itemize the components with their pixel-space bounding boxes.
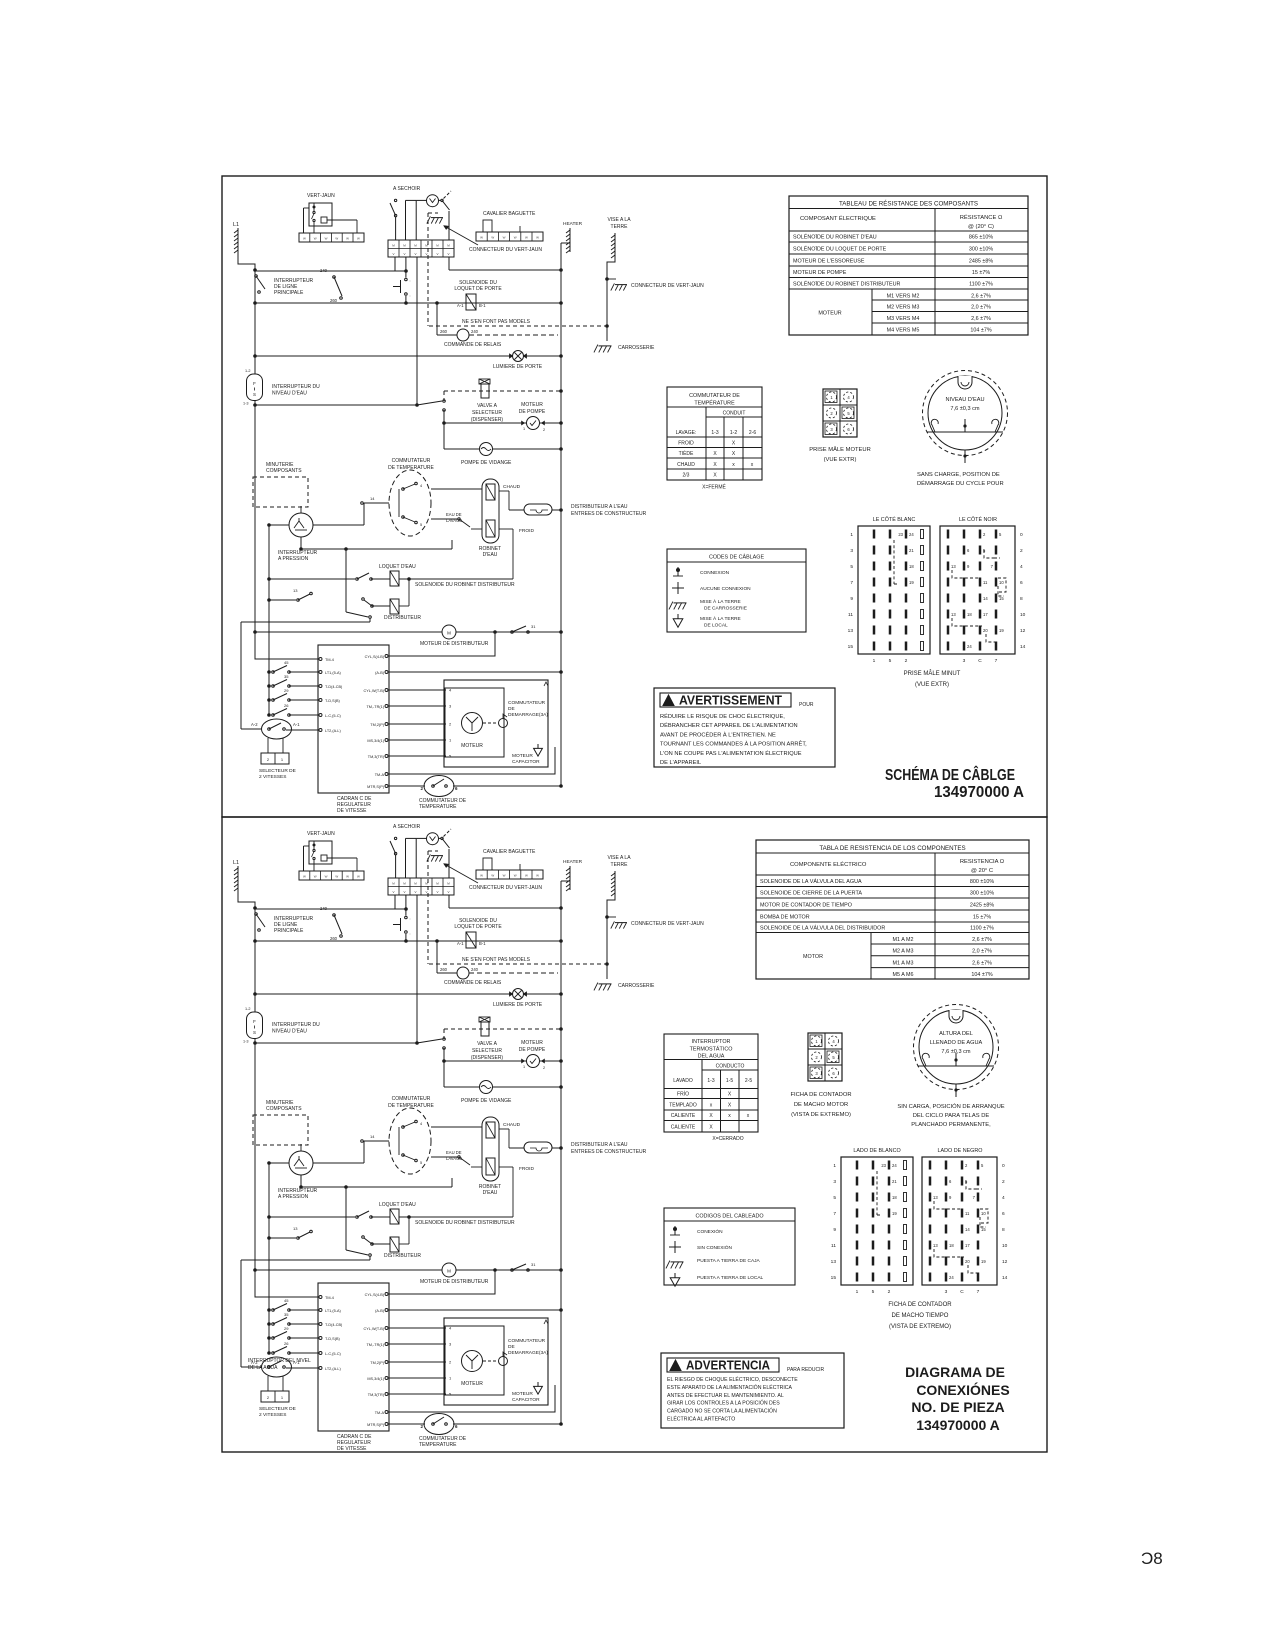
svg-text:134970000 A: 134970000 A [934, 784, 1024, 801]
svg-text:20: 20 [965, 1259, 970, 1264]
svg-text:4: 4 [1002, 1195, 1005, 1201]
svg-text:M5 A M6: M5 A M6 [893, 972, 914, 978]
svg-text:FICHA DE CONTADOR: FICHA DE CONTADOR [888, 1302, 952, 1308]
svg-text:2-5: 2-5 [745, 1078, 752, 1084]
svg-text:5: 5 [889, 658, 892, 664]
svg-text:TEMPÉRATURE: TEMPÉRATURE [694, 400, 735, 407]
svg-text:LADO DE BLANCO: LADO DE BLANCO [853, 1148, 900, 1154]
connector grid black side [940, 526, 1015, 654]
svg-text:SOLÉNOÏDE DU ROBINET D'EAU: SOLÉNOÏDE DU ROBINET D'EAU [793, 234, 877, 241]
svg-text:BOMBA DE MOTOR: BOMBA DE MOTOR [760, 915, 810, 921]
svg-text:@ 20° C: @ 20° C [971, 868, 993, 874]
svg-text:10: 10 [999, 580, 1004, 585]
svg-text:4: 4 [1020, 564, 1023, 570]
svg-text:11: 11 [831, 1243, 836, 1249]
svg-text:MOTEUR DE POMPE: MOTEUR DE POMPE [793, 270, 847, 276]
svg-text:2485 ±8%: 2485 ±8% [969, 259, 993, 265]
svg-text:TOURNANT LES COMMANDES À LA PO: TOURNANT LES COMMANDES À LA POSITION ARR… [660, 740, 807, 748]
svg-text:14: 14 [965, 1227, 970, 1232]
svg-text:M1 A M3: M1 A M3 [893, 961, 914, 967]
svg-text:1100 ±7%: 1100 ±7% [970, 926, 994, 932]
svg-text:GIRAR LOS CONTROLES A LA POSIC: GIRAR LOS CONTROLES A LA POSICIÓN DES [667, 1400, 780, 1407]
frame bottom diagram [222, 817, 1047, 1452]
table resistance FR [789, 196, 1028, 335]
svg-text:18: 18 [892, 1195, 897, 1200]
svg-text:RÉDUIRE LE RISQUE DE CHOC ÉLEC: RÉDUIRE LE RISQUE DE CHOC ÉLECTRIQUE, [660, 713, 785, 720]
svg-text:NIVEAU D'EAU: NIVEAU D'EAU [946, 397, 985, 403]
warning box [654, 688, 835, 767]
svg-text:LE CÔTÉ NOIR: LE CÔTÉ NOIR [959, 516, 997, 523]
svg-text:NO. DE PIEZA: NO. DE PIEZA [911, 1399, 1004, 1415]
legend codes ES [664, 1208, 795, 1285]
svg-text:TIÈDE: TIÈDE [679, 450, 694, 457]
svg-text:M1 VERS M2: M1 VERS M2 [887, 294, 920, 300]
svg-text:24: 24 [892, 1163, 897, 1168]
svg-text:21: 21 [892, 1179, 897, 1184]
svg-text:2,0 ±7%: 2,0 ±7% [972, 949, 992, 955]
svg-text:2: 2 [888, 1289, 891, 1295]
svg-text:CONNEXION: CONNEXION [700, 570, 730, 576]
svg-text:PUESTA A TIERRA DE CAJA: PUESTA A TIERRA DE CAJA [697, 1258, 761, 1264]
svg-text:7: 7 [850, 580, 853, 586]
svg-text:X=FERMÉ: X=FERMÉ [702, 484, 726, 491]
svg-text:3: 3 [963, 658, 966, 664]
svg-text:DÉBRANCHER CET APPAREIL DE L'A: DÉBRANCHER CET APPAREIL DE L'ALIMENTATIO… [660, 722, 798, 729]
svg-text:C: C [978, 658, 982, 664]
svg-text:CONDUCTO: CONDUCTO [716, 1064, 745, 1070]
svg-text:CHAUD: CHAUD [677, 462, 695, 468]
svg-text:15 ±7%: 15 ±7% [972, 270, 990, 276]
svg-text:MOTOR: MOTOR [803, 954, 823, 960]
svg-text:CODES DE CÂBLAGE: CODES DE CÂBLAGE [709, 554, 765, 561]
svg-text:MISE À LA TERRE: MISE À LA TERRE [700, 615, 741, 622]
svg-text:MISE À LA TERRE: MISE À LA TERRE [700, 598, 741, 605]
schematic top (French) [233, 186, 704, 814]
svg-text:24: 24 [967, 644, 972, 649]
svg-text:FROID: FROID [678, 441, 694, 447]
svg-text:ADVERTENCIA: ADVERTENCIA [686, 1359, 770, 1373]
svg-text:CONEXIÓNES: CONEXIÓNES [916, 1381, 1009, 1398]
svg-text:DEL CICLO PARA TELAS DE: DEL CICLO PARA TELAS DE [913, 1113, 990, 1119]
svg-text:M3 VERS M4: M3 VERS M4 [887, 316, 920, 322]
svg-text:DEL AGUA: DEL AGUA [698, 1054, 725, 1060]
svg-text:CALIENTE: CALIENTE [671, 1125, 696, 1131]
svg-text:2,6 ±7%: 2,6 ±7% [971, 294, 991, 300]
svg-text:1: 1 [856, 1289, 859, 1295]
svg-text:18: 18 [949, 1243, 954, 1248]
svg-text:19: 19 [999, 628, 1004, 633]
svg-text:1-5: 1-5 [726, 1078, 733, 1084]
svg-text:AVERTISSEMENT: AVERTISSEMENT [679, 694, 782, 708]
svg-text:(VISTA DE EXTREMO): (VISTA DE EXTREMO) [889, 1324, 951, 1330]
svg-text:INTERRUPTOR DEL NIVEL: INTERRUPTOR DEL NIVEL [248, 1358, 311, 1364]
svg-text:2,6 ±7%: 2,6 ±7% [972, 961, 992, 967]
svg-text:PLANCHADO PERMANENTE,: PLANCHADO PERMANENTE, [911, 1122, 991, 1128]
svg-text:19: 19 [909, 580, 914, 585]
svg-text:ELÉCTRICA AL ARTEFACTO: ELÉCTRICA AL ARTEFACTO [667, 1416, 735, 1423]
svg-text:15: 15 [831, 1275, 837, 1281]
svg-text:SOLENOIDE DE LA VÁLVULA DEL DI: SOLENOIDE DE LA VÁLVULA DEL DISTRIBUIDOR [760, 925, 885, 932]
connector grid white side [841, 1157, 913, 1285]
connector grid white side [858, 526, 930, 654]
connector grid black side [922, 1157, 997, 1285]
svg-text:15: 15 [981, 1227, 986, 1232]
svg-text:5: 5 [872, 1289, 875, 1295]
svg-text:3: 3 [833, 1179, 836, 1185]
svg-text:COMPONENTE ELÉCTRICO: COMPONENTE ELÉCTRICO [790, 861, 867, 868]
svg-text:TERMOSTÁTICO: TERMOSTÁTICO [690, 1046, 733, 1053]
svg-text:17: 17 [983, 612, 988, 617]
svg-text:12: 12 [1002, 1259, 1008, 1265]
svg-text:PARA REDUCIR: PARA REDUCIR [787, 1367, 825, 1373]
svg-text:6: 6 [1020, 580, 1023, 586]
svg-text:1: 1 [850, 532, 853, 538]
svg-text:DE LA AGUA: DE LA AGUA [248, 1365, 278, 1371]
svg-text:AUCUNE CONNEXION: AUCUNE CONNEXION [700, 586, 751, 592]
svg-text:TABLEAU DE RÉSISTANCE DES COMP: TABLEAU DE RÉSISTANCE DES COMPOSANTS [839, 201, 978, 208]
svg-text:AVANT DE PROCÉDER À L'ENTRETIE: AVANT DE PROCÉDER À L'ENTRETIEN. NE [660, 731, 776, 738]
svg-text:13: 13 [933, 1195, 938, 1200]
svg-text:17: 17 [965, 1243, 970, 1248]
svg-text:24: 24 [909, 532, 914, 537]
svg-text:TEMPLADO: TEMPLADO [669, 1103, 697, 1109]
svg-text:7,6 ±0,3 cm: 7,6 ±0,3 cm [941, 1049, 971, 1055]
svg-text:23: 23 [898, 532, 903, 537]
connector motor 6pin [823, 389, 857, 437]
svg-text:ALTURA DEL: ALTURA DEL [939, 1031, 973, 1037]
svg-text:2-6: 2-6 [749, 430, 756, 436]
svg-text:2: 2 [1020, 548, 1023, 554]
svg-text:7: 7 [977, 1289, 980, 1295]
svg-text:2/3: 2/3 [683, 473, 690, 479]
svg-text:DE MACHO MOTOR: DE MACHO MOTOR [794, 1102, 848, 1108]
svg-text:INTERRUPTOR: INTERRUPTOR [692, 1039, 731, 1045]
svg-text:2425 ±8%: 2425 ±8% [970, 903, 994, 909]
svg-text:SIN CARGA, POSICIÓN DE ARRANQU: SIN CARGA, POSICIÓN DE ARRANQUE [897, 1103, 1004, 1110]
svg-text:9: 9 [850, 596, 853, 602]
svg-text:LAVAGE:: LAVAGE: [676, 430, 697, 436]
svg-text:1-3: 1-3 [707, 1078, 714, 1084]
svg-text:10: 10 [1002, 1243, 1008, 1249]
svg-text:13: 13 [951, 612, 956, 617]
svg-text:CALIENTE: CALIENTE [671, 1113, 696, 1119]
svg-text:134970000 A: 134970000 A [916, 1417, 1000, 1433]
svg-text:7: 7 [833, 1211, 836, 1217]
svg-text:12: 12 [1020, 628, 1026, 634]
svg-text:PUESTA A TIERRA DE LOCAL: PUESTA A TIERRA DE LOCAL [697, 1275, 764, 1281]
svg-text:C: C [960, 1289, 964, 1295]
table temperature ES [664, 1034, 758, 1132]
svg-text:15: 15 [999, 596, 1004, 601]
svg-text:104 ±7%: 104 ±7% [970, 328, 991, 334]
svg-text:EL RIESGO DE CHOQUE ELÉCTRICO,: EL RIESGO DE CHOQUE ELÉCTRICO, DESCONECT… [667, 1376, 798, 1383]
svg-text:13: 13 [848, 628, 854, 634]
svg-text:0: 0 [1020, 532, 1023, 538]
svg-text:SIN CONEXIÓN: SIN CONEXIÓN [697, 1244, 732, 1251]
svg-text:M4 VERS M5: M4 VERS M5 [887, 328, 920, 334]
svg-text:DÉMARRAGE DU CYCLE POUR: DÉMARRAGE DU CYCLE POUR [917, 480, 1004, 487]
svg-text:L'ON NE COUPE PAS L'ALIMENTATI: L'ON NE COUPE PAS L'ALIMENTATION ÉLECTRI… [660, 750, 802, 757]
svg-text:2: 2 [905, 658, 908, 664]
svg-text:1100 ±7%: 1100 ±7% [969, 282, 993, 288]
svg-text:3: 3 [945, 1289, 948, 1295]
svg-text:300 ±10%: 300 ±10% [969, 247, 993, 253]
svg-text:14: 14 [1002, 1275, 1008, 1281]
gauge water level [914, 1005, 999, 1090]
svg-text:RESISTENCIA Ω: RESISTENCIA Ω [960, 859, 1005, 865]
svg-text:SOLÉNOÏDE DU ROBINET DISTRIBUT: SOLÉNOÏDE DU ROBINET DISTRIBUTEUR [793, 281, 901, 288]
svg-text:M1 A M2: M1 A M2 [893, 937, 914, 943]
svg-text:20: 20 [983, 628, 988, 633]
table temperature FR [667, 387, 762, 480]
svg-text:1-2: 1-2 [730, 430, 737, 436]
frame top diagram [222, 176, 1047, 817]
svg-text:8: 8 [1020, 596, 1023, 602]
svg-text:DE L'APPAREIL: DE L'APPAREIL [660, 760, 701, 766]
svg-text:6: 6 [1002, 1211, 1005, 1217]
svg-text:(VISTA DE EXTREMO): (VISTA DE EXTREMO) [791, 1112, 851, 1118]
svg-text:RÉSISTANCE Ω: RÉSISTANCE Ω [960, 214, 1003, 221]
svg-text:FICHA DE CONTADOR: FICHA DE CONTADOR [790, 1092, 851, 1098]
svg-text:COMMUTATEUR DE: COMMUTATEUR DE [689, 393, 740, 399]
svg-text:@ (20° C): @ (20° C) [968, 224, 994, 230]
svg-text:24: 24 [949, 1275, 954, 1280]
svg-text:2,6 ±7%: 2,6 ±7% [972, 937, 992, 943]
svg-text:13: 13 [933, 1243, 938, 1248]
svg-text:MOTOR DE CONTADOR DE TIEMPO: MOTOR DE CONTADOR DE TIEMPO [760, 903, 852, 909]
svg-text:21: 21 [909, 548, 914, 553]
svg-text:TABLA DE RESISTENCIA DE LOS CO: TABLA DE RESISTENCIA DE LOS COMPONENTES [819, 845, 965, 852]
svg-text:LAVADO: LAVADO [673, 1078, 693, 1084]
svg-text:5: 5 [833, 1195, 836, 1201]
svg-text:CODIGOS DEL CABLEADO: CODIGOS DEL CABLEADO [695, 1214, 763, 1220]
svg-text:14: 14 [983, 596, 988, 601]
svg-text:1: 1 [833, 1163, 836, 1169]
svg-text:7,6 ±0,3 cm: 7,6 ±0,3 cm [950, 406, 980, 412]
svg-text:POUR: POUR [799, 702, 814, 708]
svg-text:0: 0 [1002, 1163, 1005, 1169]
svg-text:DE MACHO TIEMPO: DE MACHO TIEMPO [892, 1313, 949, 1319]
svg-text:1: 1 [873, 658, 876, 664]
svg-text:2: 2 [1002, 1179, 1005, 1185]
connector motor 6pin [808, 1033, 842, 1081]
svg-text:2,6 ±7%: 2,6 ±7% [971, 316, 991, 322]
svg-text:300 ±10%: 300 ±10% [970, 891, 994, 897]
svg-text:PRISE MÂLE MOTEUR: PRISE MÂLE MOTEUR [809, 446, 871, 453]
svg-text:M2 A M3: M2 A M3 [893, 949, 914, 955]
svg-text:18: 18 [967, 612, 972, 617]
gauge water level [923, 371, 1008, 456]
svg-text:SOLENOIDE DE CIERRE DE LA PUER: SOLENOIDE DE CIERRE DE LA PUERTA [760, 891, 862, 897]
svg-text:SCHÉMA DE CÂBLGE: SCHÉMA DE CÂBLGE [885, 765, 1015, 784]
svg-text:Ɔ8: Ɔ8 [1141, 1549, 1163, 1568]
svg-text:1-3: 1-3 [711, 430, 718, 436]
svg-text:(VUE EXTR): (VUE EXTR) [915, 682, 949, 688]
svg-text:11: 11 [983, 580, 988, 585]
legend codes FR [667, 549, 806, 632]
table resistance ES [756, 840, 1029, 979]
svg-text:800 ±10%: 800 ±10% [970, 879, 994, 885]
svg-text:LE CÔTÉ BLANC: LE CÔTÉ BLANC [873, 516, 916, 523]
svg-text:MOTEUR DE L'ESSOREUSE: MOTEUR DE L'ESSOREUSE [793, 259, 865, 265]
svg-text:CONDUIT: CONDUIT [723, 411, 746, 417]
svg-text:11: 11 [965, 1211, 970, 1216]
svg-text:10: 10 [1020, 612, 1026, 618]
svg-text:5: 5 [850, 564, 853, 570]
svg-text:15 ±7%: 15 ±7% [973, 915, 991, 921]
svg-text:15: 15 [848, 644, 854, 650]
svg-text:8: 8 [1002, 1227, 1005, 1233]
svg-text:CONEXIÓN: CONEXIÓN [697, 1228, 723, 1235]
svg-text:CARGADO NO SE CORTA LA ALIMENT: CARGADO NO SE CORTA LA ALIMENTACIÓN [667, 1408, 777, 1415]
svg-text:23: 23 [881, 1163, 886, 1168]
svg-text:DE CARROSSERIE: DE CARROSSERIE [704, 606, 747, 612]
svg-text:DE LOCAL: DE LOCAL [704, 623, 728, 629]
svg-text:18: 18 [909, 564, 914, 569]
svg-text:LLENADO DE AGUA: LLENADO DE AGUA [930, 1040, 983, 1046]
svg-text:104 ±7%: 104 ±7% [971, 972, 992, 978]
svg-text:ANTES DE EFECTUAR EL MANTENIMI: ANTES DE EFECTUAR EL MANTENIMIENTO. AL [667, 1393, 784, 1399]
svg-text:19: 19 [892, 1211, 897, 1216]
svg-text:19: 19 [981, 1259, 986, 1264]
svg-text:9: 9 [833, 1227, 836, 1233]
svg-text:FRÍO: FRÍO [677, 1091, 689, 1098]
svg-text:SANS CHARGE, POSITION DE: SANS CHARGE, POSITION DE [917, 472, 1000, 478]
svg-text:10: 10 [981, 1211, 986, 1216]
svg-text:7: 7 [995, 658, 998, 664]
svg-text:DIAGRAMA DE: DIAGRAMA DE [905, 1364, 1005, 1380]
schematic bottom (Spanish) [233, 824, 704, 1452]
svg-text:SOLENOIDE DE LA VÁLVULA DEL AG: SOLENOIDE DE LA VÁLVULA DEL AGUA [760, 878, 862, 885]
svg-text:SOLÉNOÏDE DU LOQUET DE PORTE: SOLÉNOÏDE DU LOQUET DE PORTE [793, 246, 887, 253]
svg-text:X=CERRADO: X=CERRADO [712, 1136, 743, 1142]
svg-text:ESTE APARATO DE LA ALIMENTACIÓ: ESTE APARATO DE LA ALIMENTACIÓN ELÉCTRIC… [667, 1384, 793, 1391]
svg-text:COMPOSANT ÉLECTRIQUE: COMPOSANT ÉLECTRIQUE [800, 215, 876, 222]
svg-text:3: 3 [850, 548, 853, 554]
svg-text:13: 13 [831, 1259, 837, 1265]
svg-text:MOTEUR: MOTEUR [818, 311, 841, 317]
svg-text:11: 11 [848, 612, 853, 618]
svg-text:13: 13 [951, 564, 956, 569]
svg-text:14: 14 [1020, 644, 1026, 650]
warning box [661, 1353, 844, 1428]
svg-text:M2 VERS M3: M2 VERS M3 [887, 305, 920, 311]
svg-text:PRISE MÂLE MINUT: PRISE MÂLE MINUT [904, 670, 961, 677]
svg-text:865 ±10%: 865 ±10% [969, 235, 993, 241]
svg-text:LADO DE NEGRO: LADO DE NEGRO [938, 1148, 983, 1154]
svg-text:2,0 ±7%: 2,0 ±7% [971, 305, 991, 311]
svg-text:(VUE EXTR): (VUE EXTR) [824, 457, 857, 463]
